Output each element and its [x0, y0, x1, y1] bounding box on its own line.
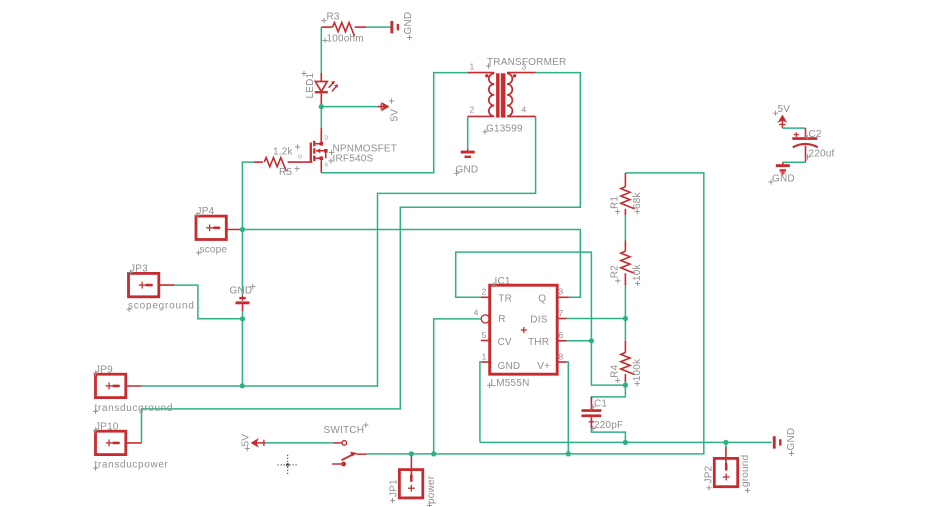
svg-text:TRANSFORMER: TRANSFORMER — [487, 57, 566, 68]
wire 555 V+ pin 8 down to 5V bus — [567, 362, 569, 454]
IC1 pin 3 Q stub — [557, 296, 569, 298]
svg-text:4: 4 — [474, 308, 479, 318]
node JP9 junction — [240, 383, 245, 388]
svg-text:5V: 5V — [390, 109, 401, 122]
label pin 2 — [482, 287, 487, 297]
svg-text:DIS: DIS — [530, 314, 547, 325]
svg-text:2: 2 — [470, 105, 475, 115]
IC1 pin name Q — [538, 293, 546, 304]
IC1 pin name TR — [498, 293, 512, 304]
IC1 pin name CV — [498, 337, 512, 348]
svg-text:R5: R5 — [279, 167, 292, 178]
supply 5V arrow top right — [779, 116, 786, 129]
resistor R2 — [621, 251, 635, 273]
svg-text:GND: GND — [403, 12, 414, 35]
resistor R3 leads — [321, 26, 366, 28]
resistor R5 — [264, 158, 286, 172]
resistor R1 — [621, 187, 635, 209]
label 220uf value of C2 — [805, 149, 835, 160]
wire JP9 to transformer pin 4 — [142, 116, 536, 386]
svg-text:1: 1 — [482, 351, 487, 361]
resistor R2 leads — [624, 241, 626, 286]
wire 5V arrow to C2 — [782, 128, 805, 137]
svg-text:R3: R3 — [327, 12, 340, 23]
svg-text:GND: GND — [230, 286, 253, 297]
label D drain pin — [325, 136, 329, 142]
label JP10 — [93, 421, 119, 433]
label C2 — [805, 129, 822, 140]
label R4 — [609, 364, 620, 383]
svg-text:220uf: 220uf — [809, 149, 835, 160]
label GND below transformer — [454, 165, 478, 176]
wire LED cathode junction right to 5V flag — [321, 106, 377, 108]
svg-text:7: 7 — [559, 308, 564, 318]
label IC1 — [491, 276, 511, 288]
label GND at scopeground — [230, 284, 256, 297]
wire 555 DIS pin to R2/R4 junction — [567, 318, 626, 320]
wire MOSFET source stub — [320, 162, 322, 173]
svg-text:1.2k: 1.2k — [273, 147, 294, 158]
IC1 pin 5 CV stub — [481, 340, 490, 342]
label R1 — [609, 196, 620, 215]
label S source pin — [325, 163, 329, 169]
svg-text:100ohm: 100ohm — [327, 34, 364, 45]
wire DIS junction to R4 top — [624, 319, 626, 341]
transformer pin 2 lead — [468, 115, 495, 117]
label pin 1 — [470, 62, 475, 72]
IC1 pin 7 DIS stub — [557, 318, 566, 320]
wire JP1 pin to 5V bus — [410, 454, 412, 458]
connector JP9 — [96, 374, 126, 397]
node V+ bus junction — [566, 451, 571, 456]
label C1 — [590, 399, 607, 410]
svg-text:LED1: LED1 — [305, 72, 316, 98]
label R2 — [609, 265, 620, 284]
svg-text:5V: 5V — [241, 434, 252, 447]
wire R4 junction jog to C1 top — [591, 385, 625, 400]
switch S1 top contact — [333, 441, 347, 446]
wire R3 right to GND — [366, 26, 391, 28]
label TRANSFORMER — [486, 57, 567, 68]
svg-text:TR: TR — [498, 293, 512, 304]
svg-text:R4: R4 — [609, 364, 620, 377]
node JP2 junction — [723, 440, 728, 445]
svg-text:220pF: 220pF — [594, 420, 623, 431]
wire JP10 to transformer pin 3 — [142, 73, 581, 443]
wire R2 bottom to DIS junction — [624, 285, 626, 319]
connector JP10 pin — [125, 442, 142, 444]
node R-pin bus junction — [431, 451, 436, 456]
label LED1 — [301, 71, 315, 99]
label GND below C2 — [768, 174, 794, 185]
svg-text:6: 6 — [559, 330, 564, 340]
switch S1 bottom contact — [332, 462, 346, 467]
svg-text:4: 4 — [522, 105, 527, 115]
switch S1 lever — [342, 452, 358, 460]
label GND at R3 — [403, 12, 414, 40]
svg-text:power: power — [426, 475, 437, 504]
node LED junction — [319, 104, 324, 109]
node JP1 junction — [409, 451, 414, 456]
wire LED junction down to MOSFET drain — [320, 107, 322, 128]
op-amp IC1 LM555N body — [490, 285, 558, 374]
svg-text:IC1: IC1 — [495, 276, 511, 287]
label pin 7 — [559, 308, 564, 318]
svg-text:GND: GND — [772, 174, 795, 185]
svg-text:3: 3 — [559, 287, 564, 297]
node JP4 junction — [240, 227, 245, 232]
label pin 3 — [559, 287, 564, 297]
label pin 1 — [482, 351, 487, 361]
resistor R3 — [333, 23, 355, 37]
LED LED1 light arrows — [329, 81, 339, 92]
connector JP3 — [129, 273, 159, 296]
IC1 pin 1 GND stub — [481, 361, 490, 363]
svg-text:transducground: transducground — [95, 403, 174, 414]
switch S1 common lead — [357, 453, 367, 455]
resistor R4 — [621, 353, 635, 375]
connector JP1 pin — [410, 457, 412, 475]
wire 555 GND pin 1 down to ground bus — [479, 362, 482, 442]
IC1 pin name GND — [498, 361, 521, 372]
label 10k value of R2 — [632, 263, 643, 286]
wire transformer pin 2 down to GND — [467, 116, 469, 149]
label 5V at LED junction — [389, 98, 401, 121]
label ground value of JP2 — [740, 455, 751, 493]
wire R3 left corner down to LED — [320, 27, 322, 73]
label pin 5 — [482, 330, 487, 340]
node R4 bottom junction — [623, 383, 628, 388]
capacitor C1 — [582, 397, 602, 429]
label 5V at switch — [241, 434, 252, 451]
svg-text:JP2: JP2 — [704, 465, 715, 483]
svg-text:IRF540S: IRF540S — [333, 154, 374, 165]
label SWITCH — [324, 422, 369, 435]
IC1 pin 6 THR stub — [557, 340, 566, 342]
label 68k value of R1 — [632, 191, 643, 214]
transistor Q1 NPNMOSFET IRF540S — [311, 141, 328, 162]
sheet origin crosshair — [278, 455, 299, 475]
wire scope net JP4 to 555 Q output — [242, 230, 580, 298]
label G gate pin — [298, 155, 302, 161]
wire 555 R pin 4 to 5V bus — [434, 319, 481, 454]
label transducground value — [93, 403, 173, 414]
IC1 pin name R — [498, 314, 505, 325]
wire C1 bottom to ground bus — [591, 428, 625, 442]
resistor R5 leads — [254, 161, 313, 163]
svg-text:68k: 68k — [632, 191, 643, 209]
label pin 4 — [522, 105, 527, 115]
IC1 pin name DIS — [530, 314, 547, 325]
svg-text:CV: CV — [498, 337, 512, 348]
svg-text:GND: GND — [456, 165, 479, 176]
IC1 pin 4 R inversion bubble — [481, 315, 489, 323]
wire MOSFET source to transformer pin 1 — [321, 73, 468, 173]
svg-text:scope: scope — [200, 244, 228, 255]
wire JP2 pin to ground bus — [725, 442, 727, 447]
svg-text:G: G — [298, 155, 302, 161]
node C1 ground junction — [623, 440, 628, 445]
label JP3 — [128, 263, 148, 275]
svg-text:G13599: G13599 — [486, 123, 523, 134]
IC1 center mark — [521, 327, 527, 333]
connector JP10 — [96, 431, 126, 454]
transformer core — [496, 73, 505, 117]
label scope value — [196, 244, 228, 255]
supply 5V flag left at switch — [252, 439, 266, 446]
svg-text:C1: C1 — [594, 399, 607, 410]
wire MOSFET drain stub — [320, 128, 322, 144]
connector JP2 — [714, 458, 737, 486]
node THR junction — [589, 338, 594, 343]
svg-text:THR: THR — [528, 337, 549, 348]
wire R1 top to 5V bus via right rail — [367, 173, 704, 454]
label transducpower value — [93, 460, 169, 471]
transformer G13599 secondary coil — [507, 73, 512, 116]
LED LED1 anode stub — [320, 73, 322, 82]
label 5V top right — [773, 104, 790, 116]
label 220pF value of C1 — [590, 420, 623, 431]
ground GND at R3 — [390, 21, 399, 33]
label 100k value of R4 — [632, 358, 643, 386]
svg-text:JP10: JP10 — [95, 421, 119, 432]
IC1 pin name THR — [528, 337, 549, 348]
svg-text:ground: ground — [740, 455, 751, 487]
label R5 — [279, 166, 300, 178]
svg-text:GND: GND — [498, 361, 521, 372]
resistor R1 leads — [624, 173, 626, 215]
label pin 6 — [559, 330, 564, 340]
label pin 3 — [522, 62, 527, 72]
wire JP3 to scopeground GND — [174, 285, 243, 319]
svg-text:R1: R1 — [609, 196, 620, 209]
IC1 pin 2 TR stub — [481, 296, 490, 298]
transformer pin 3 lead — [507, 73, 536, 78]
svg-text:1: 1 — [470, 62, 475, 72]
svg-text:5V: 5V — [778, 104, 791, 115]
svg-text:LM555N: LM555N — [491, 378, 530, 389]
label NPNMOSFET — [329, 144, 397, 156]
transformer G13599 primary coil — [489, 73, 494, 116]
label IRF540S value — [328, 154, 373, 165]
svg-text:2: 2 — [482, 287, 487, 297]
svg-text:D: D — [325, 136, 329, 142]
IC1 pin name V+ — [537, 361, 550, 372]
label power value of JP1 — [426, 475, 437, 507]
connector JP4 — [196, 216, 226, 239]
wire R1 bottom to R2 top — [624, 215, 626, 241]
ground GND below C2 — [776, 162, 790, 175]
supply 5V+ flag right — [378, 103, 389, 110]
connector JP2 pin — [725, 447, 727, 464]
svg-text:V+: V+ — [537, 361, 550, 372]
svg-text:JP1: JP1 — [389, 479, 400, 497]
wire 555 THR pin to loop — [567, 340, 592, 342]
node DIS junction — [623, 316, 628, 321]
label scopeground value — [126, 301, 194, 312]
label 1.2k value of R5 — [273, 144, 300, 157]
transformer pin 1 lead — [468, 73, 495, 78]
svg-text:100k: 100k — [632, 358, 643, 381]
connector JP3 pin — [158, 284, 174, 286]
svg-text:scopeground: scopeground — [128, 301, 195, 312]
svg-text:8: 8 — [559, 351, 564, 361]
svg-text:R2: R2 — [609, 265, 620, 278]
ground bus wire — [480, 441, 772, 443]
svg-text:R: R — [498, 314, 505, 325]
ground GND at scopeground (flipped) — [236, 296, 250, 319]
label R3 — [321, 12, 340, 24]
capacitor C2 220uf — [792, 132, 818, 162]
label GND at bus right end — [786, 428, 797, 456]
svg-text:S: S — [325, 163, 329, 169]
ground GND below transformer pin 2 — [461, 149, 475, 158]
wire R5 left to vertical bus — [242, 162, 254, 386]
label JP1 — [389, 479, 400, 503]
wire 555 TR loop to THR and R4 — [456, 252, 626, 385]
svg-text:GND: GND — [786, 428, 797, 451]
wire R4 bottom stub — [624, 382, 626, 385]
ground GND at bus right end — [773, 436, 782, 448]
IC1 pin 8 V+ stub — [557, 361, 566, 363]
LED LED1 — [315, 82, 328, 107]
label LM555N value — [487, 378, 530, 389]
label G13599 value — [482, 123, 523, 134]
svg-text:C2: C2 — [809, 129, 822, 140]
label 100ohm value of R3 — [322, 34, 363, 45]
connector JP1 — [399, 470, 422, 498]
svg-text:Q: Q — [538, 293, 546, 304]
svg-text:transducpower: transducpower — [95, 460, 169, 471]
label pin 2 — [470, 105, 475, 115]
label pin 8 — [559, 351, 564, 361]
label JP9 — [93, 364, 113, 376]
node scopeground junction — [240, 316, 245, 321]
svg-text:5: 5 — [482, 330, 487, 340]
transformer pin 4 lead — [507, 115, 536, 117]
label JP2 — [704, 465, 715, 490]
resistor R4 leads — [624, 341, 626, 382]
connector JP4 pin — [226, 229, 242, 231]
connector JP9 pin — [125, 385, 142, 387]
wire C2 bottom to GND — [783, 161, 806, 163]
label JP4 — [194, 206, 214, 218]
svg-text:SWITCH: SWITCH — [324, 425, 365, 436]
svg-text:10k: 10k — [632, 263, 643, 281]
label pin 4 — [474, 308, 479, 318]
wire switch top contact to 5V flag — [266, 442, 333, 444]
